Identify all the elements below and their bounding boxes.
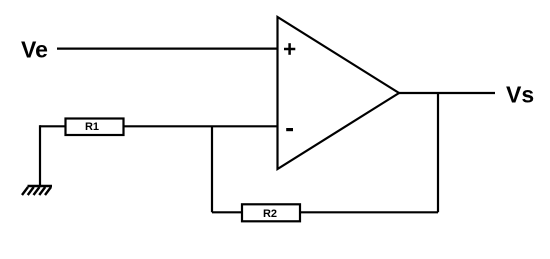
svg-text:R2: R2: [263, 208, 277, 220]
svg-text:Ve: Ve: [21, 36, 48, 62]
svg-text:Vs: Vs: [506, 81, 534, 107]
svg-text:R1: R1: [85, 121, 99, 133]
